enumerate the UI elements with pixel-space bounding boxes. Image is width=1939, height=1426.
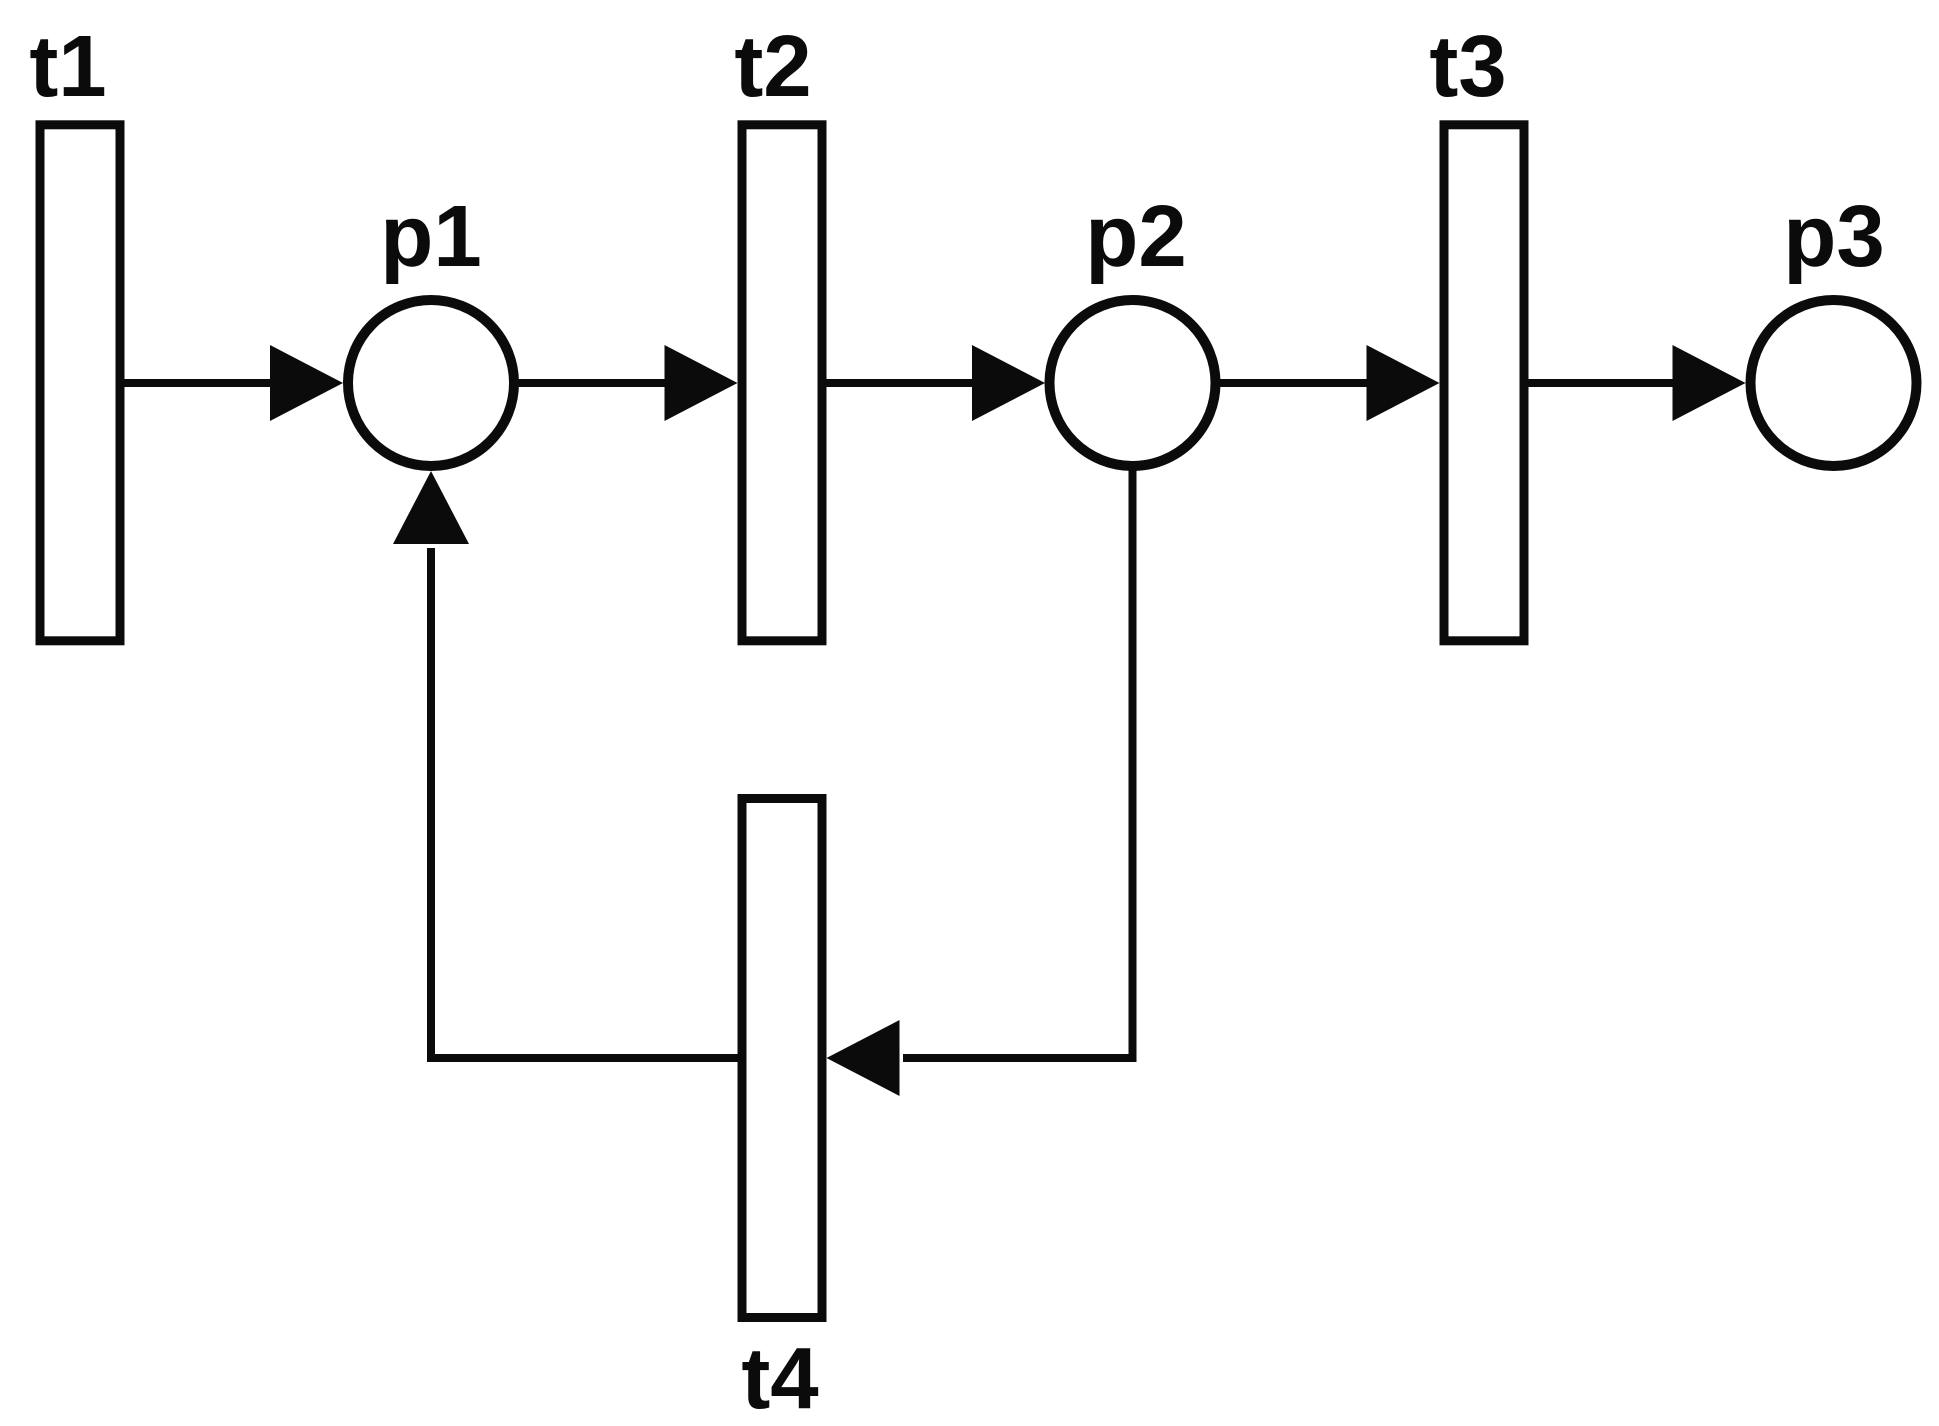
svg-text:p1: p1: [380, 188, 482, 285]
svg-text:t4: t4: [741, 1330, 818, 1426]
svg-text:t2: t2: [734, 18, 811, 115]
svg-text:p3: p3: [1783, 188, 1885, 285]
svg-text:t3: t3: [1429, 18, 1506, 115]
svg-text:t1: t1: [29, 18, 106, 115]
svg-text:p2: p2: [1085, 188, 1187, 285]
